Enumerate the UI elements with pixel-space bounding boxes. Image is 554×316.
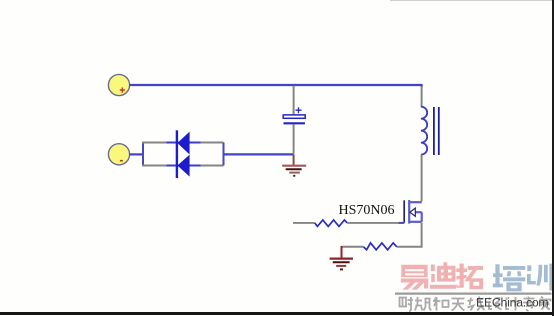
terminal + (battery positive)	[108, 74, 129, 95]
watermark text 射频和天线设计专家 (drawn)	[400, 297, 551, 312]
wire inductor to MOSFET drain	[421, 155, 423, 202]
计	[506, 297, 520, 311]
diode pair cathode bar	[176, 130, 178, 178]
clamp network box bottom edge	[142, 165, 224, 167]
wire source down	[421, 223, 423, 247]
diode D1 lead overlays top	[167, 142, 201, 144]
专	[523, 297, 535, 312]
watermark char 训	[527, 264, 553, 291]
wire top rail corner down to inductor	[421, 84, 423, 87]
resistor R2 source	[363, 243, 396, 250]
svg-text:HS70N06: HS70N06	[339, 203, 395, 218]
watermark char 易	[401, 265, 428, 290]
clamp network box left edge	[142, 143, 144, 166]
watermark char 迪	[430, 262, 456, 289]
channel line	[408, 200, 410, 224]
watermark char 拓	[456, 264, 483, 290]
ground GND2	[330, 246, 353, 269]
clamp network box top edge	[142, 142, 224, 144]
wire gate stub left	[293, 222, 315, 224]
body diode arrow	[410, 208, 415, 216]
和	[433, 297, 441, 311]
clamp network box right edge	[223, 143, 225, 166]
frame bottom border	[0, 312, 554, 315]
频	[415, 297, 431, 311]
inductor L1 winding	[421, 107, 427, 155]
capacitor C1 polarized	[283, 107, 305, 123]
wire R2 to ground	[342, 246, 364, 248]
线	[468, 297, 485, 311]
terminal - (battery negative)	[108, 144, 129, 165]
diode D1 triangle	[177, 132, 189, 155]
frame right border	[552, 0, 554, 316]
天	[452, 299, 465, 311]
wire capacitor top lead	[293, 86, 295, 115]
diode D2 triangle	[177, 155, 189, 177]
transformer core lines	[434, 107, 439, 155]
家	[540, 297, 551, 310]
watermark underline	[395, 293, 552, 295]
source lead	[409, 221, 422, 223]
射	[400, 298, 407, 307]
wire capacitor bottom lead	[293, 124, 295, 153]
watermark char 培	[493, 264, 525, 291]
source connector vertical	[421, 212, 423, 222]
ground GND1	[282, 154, 306, 175]
设 (under EEChina)	[489, 298, 502, 310]
drain lead	[409, 201, 422, 203]
wire clamp output to cap/ground node	[224, 153, 294, 155]
wire negative terminal to clamp	[129, 153, 143, 155]
diode D2 lead overlays bottom	[167, 165, 201, 167]
wire source to R2	[397, 246, 423, 248]
frame top partial line	[390, 0, 554, 1]
MOSFET Q1 HS70N06	[404, 200, 422, 224]
wire positive rail	[129, 84, 421, 86]
resistor R1 gate	[315, 220, 348, 226]
svg-text:EEChina.com: EEChina.com	[476, 296, 548, 310]
gate line	[403, 200, 405, 222]
wire R1 to gate	[347, 222, 399, 224]
body lead	[415, 211, 422, 213]
